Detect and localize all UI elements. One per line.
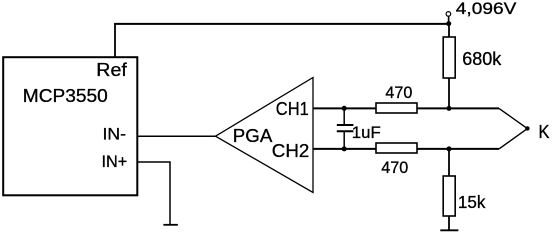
svg-text:680k: 680k bbox=[462, 49, 502, 69]
svg-text:Ref: Ref bbox=[96, 60, 128, 80]
svg-text:PGA: PGA bbox=[233, 125, 273, 146]
svg-text:CH1: CH1 bbox=[276, 98, 309, 119]
svg-text:IN+: IN+ bbox=[102, 152, 128, 171]
svg-text:CH2: CH2 bbox=[272, 140, 310, 161]
svg-text:15k: 15k bbox=[458, 192, 486, 212]
svg-text:470: 470 bbox=[381, 158, 408, 177]
svg-text:IN-: IN- bbox=[103, 125, 127, 144]
svg-text:MCP3550: MCP3550 bbox=[23, 85, 108, 106]
svg-text:1uF: 1uF bbox=[352, 123, 381, 142]
svg-text:4,096V: 4,096V bbox=[456, 0, 517, 18]
svg-text:K: K bbox=[539, 122, 550, 142]
svg-text:470: 470 bbox=[385, 83, 412, 102]
